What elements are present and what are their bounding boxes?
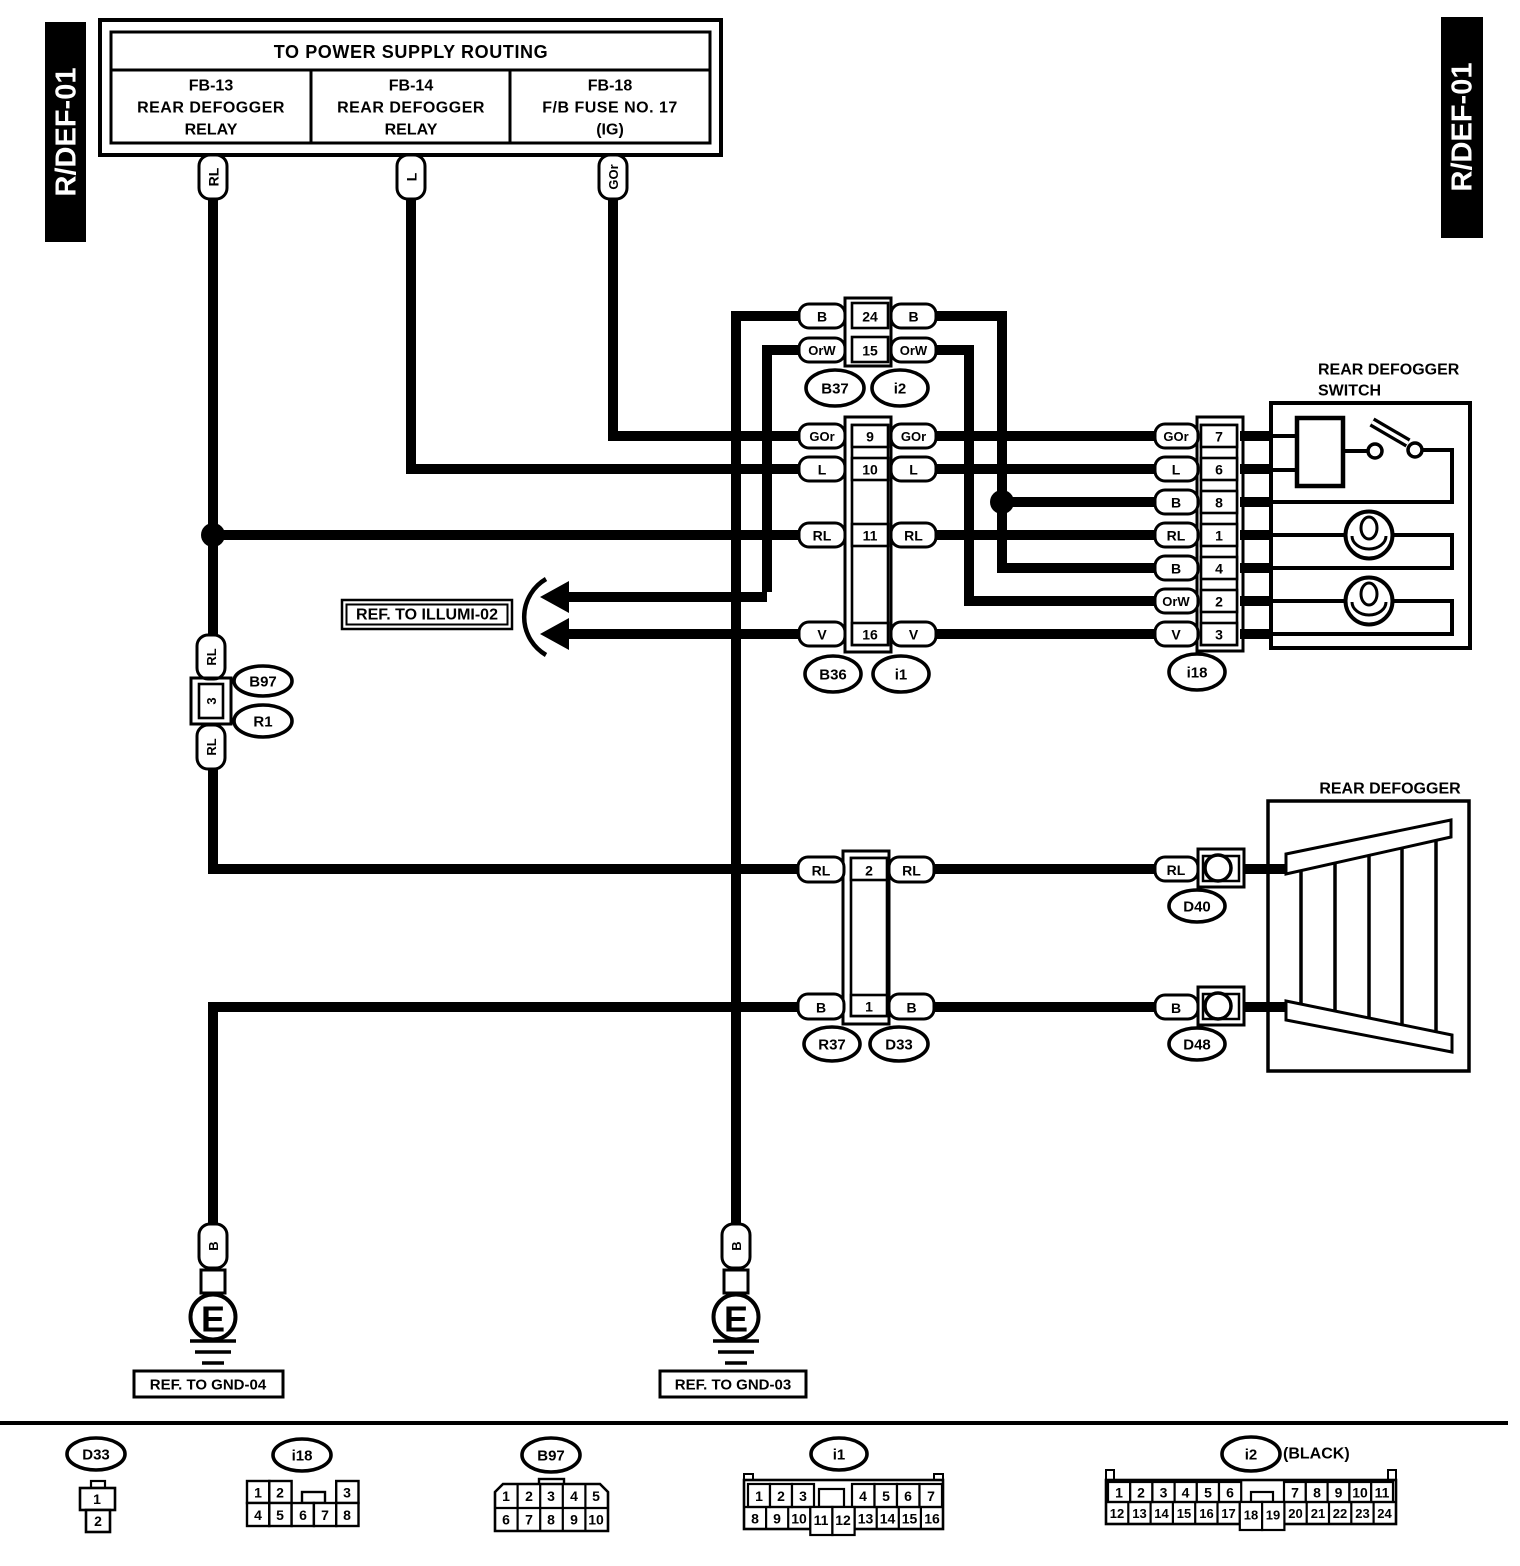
- svg-text:RL: RL: [1167, 528, 1186, 544]
- reference box REF.TO GND-04: [134, 1371, 283, 1397]
- svg-text:7: 7: [1215, 429, 1223, 445]
- junction dot B: [990, 490, 1014, 514]
- connector B97/R1 inline (pin 3) with resistor: [191, 635, 231, 769]
- svg-text:i18: i18: [292, 1448, 313, 1465]
- rear defogger box: [1266, 781, 1469, 1072]
- connector D48 (B to rear defogger): [1155, 987, 1244, 1025]
- designator ellipse B97: [234, 666, 292, 696]
- svg-text:9: 9: [1335, 1485, 1343, 1501]
- svg-text:RELAY: RELAY: [185, 122, 238, 139]
- svg-text:REAR DEFOGGER: REAR DEFOGGER: [1319, 781, 1461, 798]
- svg-text:REF. TO ILLUMI-02: REF. TO ILLUMI-02: [356, 607, 498, 624]
- svg-text:L: L: [818, 462, 827, 478]
- svg-text:RL: RL: [902, 863, 921, 879]
- svg-text:7: 7: [927, 1488, 935, 1504]
- junction dot RL: [201, 523, 225, 547]
- svg-text:B: B: [729, 1241, 744, 1250]
- svg-text:(BLACK): (BLACK): [1283, 1446, 1350, 1463]
- svg-text:B: B: [817, 309, 827, 325]
- connector pill RL below FB-13: [199, 155, 227, 199]
- connector i18 (pins 7,6,8,1,4,2,3): [1155, 417, 1243, 651]
- svg-text:B: B: [1171, 561, 1181, 577]
- svg-text:7: 7: [321, 1507, 329, 1523]
- svg-text:V: V: [1171, 627, 1181, 643]
- designator ellipse R37: [804, 1027, 860, 1061]
- wire RL from B36 pin 11 right to i18 pin 1: [931, 530, 1160, 540]
- svg-text:GOr: GOr: [606, 164, 621, 189]
- reference box REF.TO GND-03: [660, 1371, 806, 1397]
- svg-text:D48: D48: [1183, 1037, 1211, 1054]
- designator ellipse i18: [1169, 654, 1225, 690]
- svg-text:13: 13: [858, 1511, 874, 1527]
- svg-text:OrW: OrW: [900, 343, 928, 358]
- svg-text:2: 2: [777, 1488, 785, 1504]
- wire OrW from B37 pin 15 right, down, to i18 pin 2: [931, 350, 1160, 601]
- svg-text:3: 3: [1215, 627, 1223, 643]
- svg-text:R1: R1: [253, 714, 272, 731]
- svg-text:TO POWER SUPPLY ROUTING: TO POWER SUPPLY ROUTING: [274, 42, 549, 62]
- svg-text:3: 3: [343, 1485, 351, 1501]
- svg-text:5: 5: [882, 1488, 890, 1504]
- wire B from D33 connector right to D48: [931, 1002, 1160, 1012]
- svg-text:7: 7: [1291, 1485, 1299, 1501]
- svg-text:RL: RL: [204, 648, 219, 665]
- legend i2 (BLACK): [1106, 1437, 1396, 1530]
- svg-text:6: 6: [502, 1512, 510, 1528]
- wire GOr from FB-18 down then right to B36 connector: [613, 175, 805, 436]
- svg-text:GOr: GOr: [809, 429, 834, 444]
- svg-text:REF. TO GND-03: REF. TO GND-03: [675, 1377, 791, 1394]
- designator ellipse i1: [873, 656, 929, 692]
- wire D40 to rear defogger: [1240, 864, 1290, 874]
- svg-text:11: 11: [814, 1512, 829, 1528]
- designator ellipse B36: [805, 656, 861, 692]
- svg-text:3: 3: [547, 1488, 555, 1504]
- rear defogger grid element: [1286, 820, 1452, 1052]
- svg-text:4: 4: [1182, 1485, 1190, 1501]
- svg-text:10: 10: [588, 1512, 604, 1528]
- svg-text:24: 24: [862, 309, 878, 325]
- svg-text:V: V: [817, 627, 827, 643]
- wire OrW from B37 pin 15 left down to illumination arrow: [767, 350, 805, 592]
- svg-text:D40: D40: [1183, 899, 1211, 916]
- power supply routing box: [100, 20, 721, 155]
- svg-text:3: 3: [799, 1488, 807, 1504]
- svg-text:8: 8: [751, 1511, 759, 1527]
- wire GOr from B36 pin 9 right to i18 pin 7: [931, 431, 1160, 441]
- svg-text:FB-13: FB-13: [189, 78, 234, 95]
- svg-text:19: 19: [1266, 1508, 1280, 1523]
- svg-text:B: B: [906, 1000, 916, 1016]
- svg-text:12: 12: [1110, 1506, 1124, 1521]
- svg-text:L: L: [404, 172, 420, 181]
- svg-text:9: 9: [866, 429, 874, 445]
- svg-text:R37: R37: [818, 1037, 846, 1054]
- svg-text:1: 1: [865, 999, 873, 1015]
- connector B36/i1 inline (pins 9,10,11,16): [799, 417, 936, 652]
- svg-text:13: 13: [1132, 1506, 1146, 1521]
- connector B37/i2 inline (pins 24,15): [799, 298, 936, 366]
- svg-text:L: L: [909, 462, 918, 478]
- designator ellipse i2: [872, 370, 928, 406]
- connector pill L below FB-14: [397, 155, 425, 199]
- reference box REF.TO ILLUMI-02: [342, 600, 512, 629]
- svg-text:RL: RL: [904, 528, 923, 544]
- svg-text:15: 15: [902, 1511, 918, 1527]
- wire V from B36 pin 16 left to arrow lower: [566, 629, 805, 639]
- svg-text:OrW: OrW: [808, 343, 836, 358]
- svg-text:8: 8: [343, 1507, 351, 1523]
- legend B97: [495, 1438, 608, 1531]
- svg-text:8: 8: [1215, 495, 1223, 511]
- svg-text:7: 7: [525, 1512, 533, 1528]
- svg-text:5: 5: [592, 1488, 600, 1504]
- svg-text:B37: B37: [821, 381, 849, 398]
- svg-text:1: 1: [755, 1488, 763, 1504]
- svg-text:F/B FUSE NO. 17: F/B FUSE NO. 17: [542, 100, 678, 117]
- svg-text:22: 22: [1333, 1506, 1347, 1521]
- svg-text:16: 16: [1199, 1506, 1213, 1521]
- ground GND-04 symbol: [190, 1224, 236, 1363]
- svg-text:i18: i18: [1187, 665, 1208, 682]
- svg-text:5: 5: [1204, 1485, 1212, 1501]
- svg-text:E: E: [201, 1299, 225, 1340]
- svg-text:i1: i1: [895, 667, 908, 684]
- svg-text:B36: B36: [819, 667, 847, 684]
- svg-text:6: 6: [904, 1488, 912, 1504]
- svg-text:20: 20: [1288, 1506, 1302, 1521]
- svg-text:4: 4: [859, 1488, 867, 1504]
- svg-text:B97: B97: [537, 1448, 565, 1465]
- svg-text:i2: i2: [1245, 1447, 1258, 1464]
- svg-text:4: 4: [570, 1488, 578, 1504]
- svg-text:REF. TO GND-04: REF. TO GND-04: [150, 1377, 267, 1394]
- designator ellipse R1: [234, 705, 292, 737]
- arrowhead upper: [540, 581, 569, 613]
- svg-text:RL: RL: [812, 863, 831, 879]
- svg-text:17: 17: [1221, 1506, 1235, 1521]
- svg-text:RELAY: RELAY: [385, 122, 438, 139]
- svg-text:B: B: [908, 309, 918, 325]
- svg-text:9: 9: [773, 1511, 781, 1527]
- connector R37/D33 inline (pins 2,1): [798, 851, 934, 1024]
- wire B branch to i18 pin 8: [1002, 497, 1160, 507]
- svg-text:REAR DEFOGGER: REAR DEFOGGER: [337, 100, 485, 117]
- arrowhead lower: [540, 618, 569, 650]
- svg-text:R/DEF-01: R/DEF-01: [1447, 63, 1479, 192]
- svg-text:i2: i2: [894, 381, 907, 398]
- svg-text:OrW: OrW: [1162, 594, 1190, 609]
- designator ellipse D48: [1169, 1028, 1225, 1060]
- svg-text:1: 1: [254, 1485, 262, 1501]
- svg-text:GOr: GOr: [901, 429, 926, 444]
- svg-text:18: 18: [1244, 1508, 1258, 1523]
- svg-text:24: 24: [1377, 1506, 1392, 1521]
- wire L from FB-14 down then right to B36 connector: [411, 175, 805, 469]
- svg-text:V: V: [909, 627, 919, 643]
- svg-text:2: 2: [276, 1485, 284, 1501]
- switch coil rectangle: [1271, 418, 1343, 486]
- designator ellipse D33: [870, 1027, 928, 1061]
- wire L from B36 pin 10 right to i18 pin 6: [931, 464, 1160, 474]
- svg-text:16: 16: [924, 1511, 940, 1527]
- svg-text:2: 2: [1137, 1485, 1145, 1501]
- svg-text:14: 14: [880, 1511, 896, 1527]
- wire B from B37 pin 24 left to vertical down to ground GND-03: [736, 316, 805, 1224]
- svg-text:SWITCH: SWITCH: [1318, 383, 1381, 400]
- svg-text:10: 10: [791, 1511, 807, 1527]
- svg-text:GOr: GOr: [1163, 429, 1188, 444]
- wire D48 to rear defogger: [1240, 1002, 1290, 1012]
- svg-text:2: 2: [94, 1513, 102, 1529]
- svg-text:23: 23: [1355, 1506, 1369, 1521]
- designator ellipse B37: [806, 370, 864, 406]
- svg-text:D33: D33: [82, 1447, 110, 1464]
- svg-text:FB-18: FB-18: [588, 78, 633, 95]
- wire B bottom row from R37 connector left to ground GND-04: [213, 1007, 805, 1224]
- connector D40 (RL to rear defogger): [1155, 849, 1244, 887]
- wire B from B37 pin 24 right, down, to i18 pins 8 and 4: [931, 316, 1160, 568]
- svg-text:(IG): (IG): [596, 122, 624, 139]
- svg-text:2: 2: [865, 863, 873, 879]
- legend i1: [744, 1438, 943, 1535]
- svg-text:R/DEF-01: R/DEF-01: [51, 68, 83, 197]
- switch lamp 2 (indicator): [1271, 578, 1452, 635]
- frame label R/DEF-01 left: [45, 22, 86, 242]
- svg-text:15: 15: [862, 343, 878, 359]
- svg-text:L: L: [1172, 462, 1181, 478]
- svg-text:RL: RL: [813, 528, 832, 544]
- svg-text:3: 3: [1160, 1485, 1168, 1501]
- svg-text:11: 11: [863, 528, 878, 544]
- svg-text:5: 5: [276, 1507, 284, 1523]
- svg-text:14: 14: [1154, 1506, 1169, 1521]
- svg-text:RL: RL: [206, 167, 222, 186]
- switch contacts and lever: [1271, 422, 1452, 502]
- svg-text:21: 21: [1311, 1506, 1325, 1521]
- svg-text:1: 1: [1215, 528, 1223, 544]
- svg-text:B97: B97: [249, 674, 277, 691]
- wire RL from R37 connector right to D40: [931, 864, 1160, 874]
- svg-text:2: 2: [1215, 594, 1223, 610]
- legend i18: [247, 1439, 359, 1526]
- connector pill GOr below FB-18: [599, 155, 627, 199]
- wire RL below B97 connector to corner then right to R37 connector: [213, 760, 805, 869]
- svg-text:1: 1: [93, 1491, 101, 1507]
- svg-text:8: 8: [1313, 1485, 1321, 1501]
- svg-text:4: 4: [254, 1507, 262, 1523]
- svg-text:9: 9: [570, 1512, 578, 1528]
- svg-text:D33: D33: [885, 1037, 913, 1054]
- wire RL horizontal junction to B36 connector: [213, 530, 805, 540]
- svg-text:FB-14: FB-14: [389, 78, 434, 95]
- svg-text:16: 16: [862, 627, 878, 643]
- svg-text:10: 10: [862, 462, 878, 478]
- wires i18 to rear defogger switch stubs: [1240, 436, 1272, 634]
- svg-text:E: E: [724, 1299, 748, 1340]
- svg-text:B: B: [206, 1241, 221, 1250]
- svg-text:2: 2: [525, 1488, 533, 1504]
- svg-text:6: 6: [1215, 462, 1223, 478]
- svg-text:B: B: [816, 1000, 826, 1016]
- switch lamp 1 (illumination): [1271, 512, 1452, 569]
- svg-text:REAR DEFOGGER: REAR DEFOGGER: [1318, 362, 1460, 379]
- frame label R/DEF-01 right: [1441, 17, 1483, 238]
- svg-text:4: 4: [1215, 561, 1223, 577]
- svg-text:i1: i1: [833, 1447, 846, 1464]
- separator line above legend: [0, 1421, 1508, 1425]
- wire arrow shaft to REF.TO ILLUMI-02 upper: [566, 592, 767, 602]
- svg-text:1: 1: [502, 1488, 510, 1504]
- ground GND-03 symbol: [713, 1224, 759, 1363]
- svg-text:11: 11: [1375, 1485, 1390, 1501]
- svg-text:B: B: [1171, 1000, 1181, 1016]
- designator ellipse D40: [1169, 890, 1225, 922]
- legend D33: [67, 1438, 125, 1532]
- svg-text:6: 6: [1226, 1485, 1234, 1501]
- wire RL from FB-13 down to junction and B97 connector: [208, 175, 218, 645]
- arc parenthesis before arrows: [524, 579, 546, 655]
- svg-text:1: 1: [1115, 1485, 1123, 1501]
- svg-text:B: B: [1171, 495, 1181, 511]
- rear defogger switch box: [1271, 362, 1470, 649]
- svg-text:10: 10: [1352, 1485, 1368, 1501]
- svg-text:RL: RL: [204, 738, 219, 755]
- svg-text:12: 12: [835, 1512, 851, 1528]
- svg-text:8: 8: [547, 1512, 555, 1528]
- wire V from B36 pin 16 right to i18 pin 3: [931, 629, 1160, 639]
- svg-text:6: 6: [299, 1507, 307, 1523]
- svg-text:REAR DEFOGGER: REAR DEFOGGER: [137, 100, 285, 117]
- svg-text:RL: RL: [1167, 862, 1186, 878]
- svg-text:3: 3: [204, 697, 219, 704]
- svg-text:15: 15: [1177, 1506, 1191, 1521]
